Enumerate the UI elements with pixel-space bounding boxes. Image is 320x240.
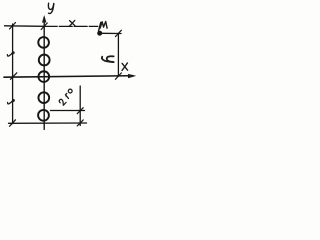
ring 1 <box>38 37 49 48</box>
tick at M end of x dimension <box>99 22 101 31</box>
label l lower (rotated loop ell) <box>8 100 15 104</box>
tick top of y-dimension <box>115 30 121 36</box>
top dimension line dashed part <box>44 25 98 27</box>
point M dot <box>97 31 102 36</box>
tick 2r0 bottom <box>77 120 83 126</box>
y-axis <box>43 18 45 130</box>
label l upper (rotated loop ell) <box>7 52 14 56</box>
label y right dimension (rotated -90) <box>102 56 114 62</box>
ring 5 <box>38 110 49 121</box>
label M <box>100 22 107 29</box>
2r0 top extension line <box>51 110 85 112</box>
M extension line <box>102 32 121 34</box>
bottom extension line long <box>9 122 87 124</box>
tick bottom of y-dimension <box>115 73 121 79</box>
label x top dimension <box>70 21 75 26</box>
glyph r <box>65 95 69 99</box>
left dimension vertical line <box>12 24 14 124</box>
tick left middle <box>11 73 17 80</box>
label 2r0 (rotated) <box>59 88 75 106</box>
tick y-axis crossing of top line <box>41 23 47 30</box>
tick 2r0 top <box>77 108 83 114</box>
tick left dim top <box>10 23 16 30</box>
top dimension line solid part <box>5 25 45 28</box>
y-axis arrowhead <box>42 15 46 23</box>
tick left bottom <box>10 120 16 127</box>
glyph 0 subscript <box>68 88 73 93</box>
x-axis arrowhead <box>128 74 136 78</box>
x-axis <box>4 76 133 78</box>
vertical y-dimension line <box>117 33 119 76</box>
glyph 2 <box>59 98 67 105</box>
label x axis right <box>122 63 128 70</box>
ring 3 origin <box>38 71 49 82</box>
label y axis (script y) <box>48 3 53 9</box>
ring 2 <box>39 55 50 66</box>
ring 4 <box>38 92 49 103</box>
2r0 vertical dimension line <box>79 86 81 126</box>
